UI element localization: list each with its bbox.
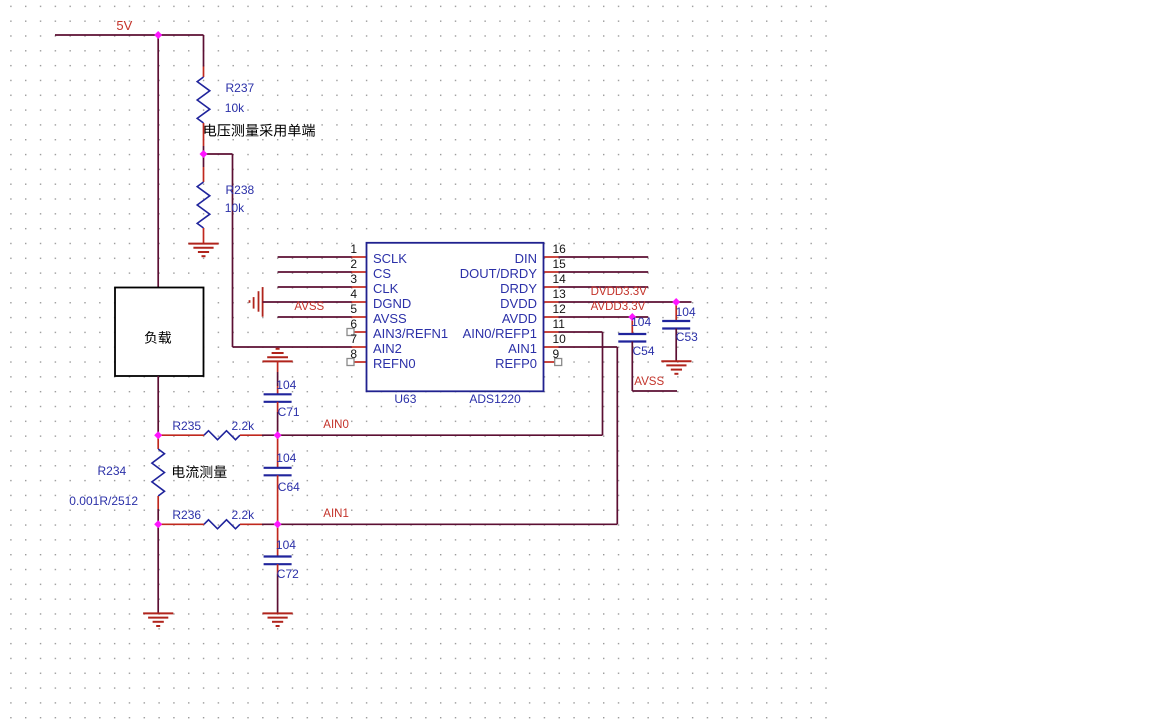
junction node divider mid (200, 150, 208, 158)
wire AIN0 row to pin11 riser (262, 434, 603, 436)
pin number 5 (344, 303, 357, 315)
ground below R238 (188, 244, 218, 257)
wire top right corner down to R237 (203, 35, 205, 67)
no-connect square pin 8 (347, 359, 354, 366)
junction node AIN0 left (154, 431, 162, 439)
wire AIN1 node to C72 (277, 524, 279, 556)
wire AIN1 row left segment (158, 523, 204, 525)
wire DGND pin 4 to AVSS bar (263, 301, 352, 303)
value 10k of R237 (225, 102, 244, 114)
junction node AIN1 left (154, 520, 162, 528)
capacitor C71 (264, 394, 292, 402)
pin name AVSS (373, 312, 407, 325)
value 104 of C53 (676, 306, 696, 318)
capacitor C72 (264, 557, 292, 565)
wire pin 5 AVSS stub (278, 316, 352, 318)
pin number 16 (553, 243, 566, 255)
junction node AIN0 cap (274, 431, 282, 439)
label R238 (226, 184, 255, 196)
resistor R236 (204, 520, 262, 529)
wire pin 11 to riser (559, 331, 603, 333)
capacitor C54 (618, 334, 646, 342)
net label AIN1 (323, 509, 349, 521)
IC U63 pins 9-16 right red stubs (544, 257, 559, 362)
pin number 3 (344, 273, 357, 285)
net label DVDD3.3V (591, 287, 647, 299)
wire divider node down to R238 (203, 154, 205, 167)
pin name REFP0 (437, 357, 537, 370)
inverted ground above C71 (263, 349, 293, 362)
resistor R234 current shunt (152, 435, 165, 509)
wire AVSS horizontal bottom right (632, 390, 677, 392)
load box 负载 (115, 288, 204, 377)
wire pin 15 DOUT (559, 271, 649, 273)
pin name AIN2 (373, 342, 402, 355)
resistor R237 (197, 67, 210, 147)
net label AVSS left (294, 302, 324, 314)
pin name AIN3/REFN1 (373, 327, 448, 340)
label R235 (172, 420, 201, 432)
label C64 (278, 481, 300, 493)
wire pin 12 AVDD3.3V (559, 316, 649, 318)
value 2.2k of R235 (232, 420, 255, 432)
net label 5V (116, 19, 132, 32)
wire 5V horizontal top (55, 34, 204, 36)
wire pin 3 CLK stub (278, 286, 352, 288)
IC U63 pins 1-8 left red stubs (352, 257, 367, 362)
value 104 of C64 (276, 452, 296, 464)
AVSS power bar symbol at DGND pin (250, 287, 263, 317)
ground below C53 (661, 361, 691, 374)
pin name DGND (373, 297, 411, 310)
value 104 of C71 (276, 379, 296, 391)
pin name DIN (437, 252, 537, 265)
pin number 15 (553, 258, 566, 270)
resistor R238 (197, 167, 210, 244)
net label AIN0 (323, 420, 349, 432)
pin number 6 (344, 318, 357, 330)
pin name CLK (373, 282, 398, 295)
wire pin 2 CS stub (278, 271, 352, 273)
net label AVSS bottom right (634, 377, 664, 389)
pin name AVDD (437, 312, 537, 325)
pin number 11 (553, 318, 565, 330)
wire C54 top stub (631, 317, 633, 334)
junction node 5V (154, 31, 162, 39)
label C54 (633, 345, 655, 357)
capacitor C53 (662, 321, 690, 329)
no-connect square pin 6 (347, 329, 354, 336)
capacitor C64 (264, 468, 292, 476)
wire pin 14 DRDY (559, 286, 649, 288)
wire 5V vertical to load box (157, 35, 159, 288)
pin name SCLK (373, 252, 407, 265)
label R234 (98, 465, 127, 477)
ground below C72 (263, 613, 293, 626)
junction node AIN1 cap (274, 520, 282, 528)
label C53 (676, 331, 698, 343)
resistor R235 (204, 431, 262, 440)
pin number 13 (553, 288, 566, 300)
pin number 4 (344, 288, 357, 300)
junction node DVDD C53 (672, 298, 680, 306)
label R237 (226, 82, 255, 94)
wire C53 bottom to ground (675, 329, 677, 362)
wire C54 bottom down (631, 342, 633, 392)
pin number 14 (553, 273, 566, 285)
wire C53 top stub (675, 302, 677, 321)
wire R234 bottom to AIN1 node (157, 509, 159, 524)
pin number 9 (553, 348, 560, 360)
wire C72 bottom to ground (277, 564, 279, 574)
wire load box bottom to AIN0 node (157, 376, 159, 435)
wire AIN0 row left segment (158, 434, 204, 436)
wire C71 bottom to AIN0 row (277, 402, 279, 412)
value 104 of C72 (276, 539, 296, 551)
junction node AVDD C54 (628, 313, 636, 321)
value 0.001R/2512 (69, 495, 138, 507)
wire pin 16 DIN (559, 256, 649, 258)
wire pin 1 SCLK stub (278, 256, 352, 258)
wire divider node to right riser (204, 153, 233, 155)
label U63 (394, 393, 416, 405)
net label AVDD3.3V (591, 302, 646, 314)
wire pin 10 to riser (559, 346, 618, 348)
wire R237 bottom to divider node (203, 146, 205, 154)
pin number 7 (344, 333, 357, 345)
label C71 (278, 406, 300, 418)
pin name REFN0 (373, 357, 416, 370)
wire AIN1 node down to ground (157, 524, 159, 613)
wire riser AIN0 up to pin 11 (602, 332, 604, 435)
wire riser AIN1 up to pin 10 (616, 347, 618, 524)
label R236 (172, 509, 201, 521)
wire C64 bottom to AIN1 row (277, 475, 279, 524)
label C72 (277, 568, 299, 580)
ground bottom left (143, 613, 173, 626)
no-connect square pin 9 (555, 359, 562, 366)
wire AIN0 node to C64 (277, 435, 279, 468)
pin number 12 (553, 303, 566, 315)
wire riser down to AIN2 row (232, 154, 234, 347)
pin name DRDY (437, 282, 537, 295)
pin name CS (373, 267, 391, 280)
pin number 8 (344, 348, 357, 360)
wire AIN2 row to IC pin 7 (233, 346, 353, 348)
wire pin 13 DVDD3.3V (559, 301, 692, 303)
pin name AIN1 (437, 342, 537, 355)
wire ground to C71 (277, 361, 279, 372)
IC body U63 ADS1220 (367, 243, 544, 391)
pin number 1 (344, 243, 357, 255)
value 104 of C54 (631, 316, 651, 328)
pin number 10 (553, 333, 566, 345)
pin number 2 (344, 258, 357, 270)
grid dots background (0, 0, 833, 724)
label ADS1220 (469, 393, 520, 405)
pin name DVDD (437, 297, 537, 310)
wire AIN1 row to pin10 riser (262, 523, 617, 525)
value 2.2k of R236 (232, 509, 255, 521)
value 10k of R238 (225, 202, 244, 214)
pin name DOUT/DRDY (437, 267, 537, 280)
pin name AIN0/REFP1 (437, 327, 537, 340)
